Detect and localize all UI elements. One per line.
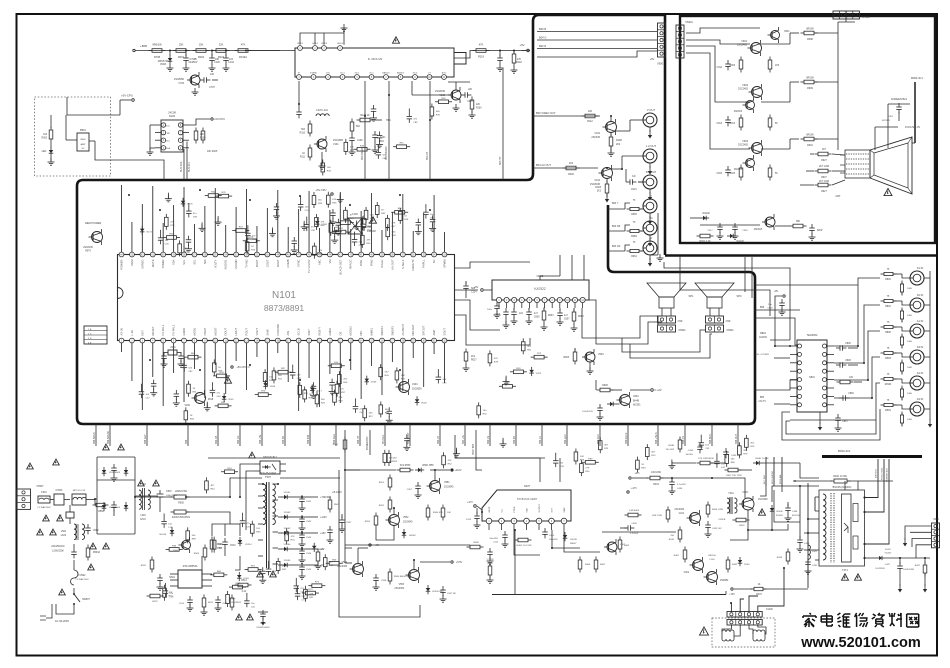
svg-text:BAND2: BAND2 — [397, 72, 405, 75]
svg-text:B05 BAND: B05 BAND — [93, 432, 96, 444]
CRT diode VD905 — [690, 213, 710, 220]
filter inductor LF501 — [72, 490, 95, 505]
remote out wire — [95, 141, 164, 180]
svg-text:T3.15AL250V: T3.15AL250V — [37, 506, 51, 509]
svg-text:VD63: VD63 — [371, 382, 377, 384]
svg-text:SC: SC — [432, 259, 436, 263]
svg-text:C808: C808 — [845, 360, 851, 362]
right harness top — [664, 262, 790, 340]
wire B05 OUT crossing box bottom — [735, 424, 738, 446]
wire audio to right 2 — [755, 318, 800, 345]
diode VD552 — [402, 529, 417, 538]
svg-text:RESET: RESET — [151, 326, 155, 335]
resistor 1bR84 — [386, 224, 397, 240]
capacitor 2C19 — [329, 379, 336, 395]
IC N101 pin 56 (top) — [202, 252, 207, 264]
jack series resistor R802 — [881, 296, 911, 308]
speaker SP3 — [695, 283, 742, 316]
svg-text:BCK-35-1604Z: BCK-35-1604Z — [260, 472, 276, 475]
psu rail wire 1 — [280, 470, 360, 478]
filter cap C565 — [296, 563, 312, 579]
CRT diode VD906 — [727, 234, 744, 243]
svg-text:+15V: +15V — [320, 532, 326, 535]
connector XP909 top — [833, 11, 870, 19]
svg-text:SNDIF1: SNDIF1 — [380, 325, 384, 335]
transistor V202 — [184, 390, 213, 407]
speaker SP3 wires — [622, 330, 712, 358]
CRT resistor R930 — [790, 221, 807, 228]
svg-text:1N4V: 1N4V — [631, 189, 637, 191]
resistor 1cR49 — [321, 159, 332, 175]
svg-text:XS50?: XS50? — [36, 485, 44, 488]
svg-text:MODL2: MODL2 — [349, 326, 353, 336]
svg-text:SIFOUT: SIFOUT — [422, 325, 426, 335]
main board boundary (thick outline) — [77, 15, 755, 424]
output label +5V — [302, 564, 325, 567]
rectifier diode VD562 — [278, 512, 296, 519]
svg-text:2K2: 2K2 — [616, 143, 621, 146]
svg-text:B05 +5V-N: B05 +5V-N — [655, 432, 658, 444]
AV input jack A3 IN — [910, 397, 924, 416]
svg-text:N801: N801 — [809, 376, 815, 379]
ground under V101 — [319, 152, 326, 169]
svg-text:100K: 100K — [907, 315, 913, 317]
hdrive transistor V431 — [674, 509, 700, 526]
HOT transistor V432 — [739, 491, 768, 512]
IC N101 pin 33 (top) — [442, 252, 447, 268]
svg-text:2SC8045: 2SC8045 — [83, 247, 93, 249]
IC N101 pin 17 (bottom) — [286, 331, 291, 343]
warning triangle psu 16 — [247, 614, 254, 620]
warning triangle opto — [249, 452, 256, 458]
svg-text:L200: L200 — [710, 559, 716, 561]
IC N101 pin 28 (bottom) — [400, 324, 405, 343]
resistor 1cR90 — [435, 98, 452, 104]
jack shunt resistor R81WB — [900, 386, 912, 401]
svg-text:AIN: AIN — [286, 331, 290, 336]
resistor R106 pullup — [194, 128, 206, 144]
CRT board box — [680, 16, 935, 243]
svg-text:B05: B05 — [185, 439, 188, 444]
CRT driver transistor V906 — [734, 97, 755, 113]
diode 2VD17 — [310, 384, 323, 393]
svg-text:+27V: +27V — [631, 487, 637, 490]
output label +8V — [302, 548, 325, 551]
svg-text:R404 1% 1/2W: R404 1% 1/2W — [517, 545, 533, 547]
N602 pin 3 — [512, 297, 517, 308]
capacitor 2C40 — [386, 407, 393, 423]
svg-text:+8V: +8V — [650, 57, 655, 61]
svg-text:C502: C502 — [93, 530, 99, 532]
IC N101 pin 26 (bottom) — [380, 325, 385, 342]
capacitor 1bC61 — [360, 216, 372, 232]
svg-text:T431: T431 — [728, 492, 734, 495]
resistor 1bR50 — [163, 233, 180, 239]
svg-text:R552: R552 — [379, 505, 385, 507]
speaker connector CN SP1 — [658, 316, 684, 323]
resistor 2R65 — [379, 364, 390, 380]
svg-text:N501: N501 — [169, 576, 175, 579]
bridge diode VD501 — [102, 467, 117, 476]
capacitor C100 — [209, 51, 221, 72]
svg-text:R560: R560 — [98, 511, 104, 513]
bus SCL wire down — [187, 142, 191, 181]
wire from IC top pin — [350, 229, 352, 252]
svg-text:SDA: SDA — [172, 259, 176, 265]
capacitor 2C79 — [290, 365, 302, 381]
transistor V552 — [386, 512, 414, 528]
svg-text:1 1/2W: 1 1/2W — [487, 559, 495, 561]
cap C558 — [373, 574, 388, 590]
svg-text:FOCUS 0.3V: FOCUS 0.3V — [905, 125, 920, 129]
N602 pin 4 — [519, 297, 524, 308]
svg-text:R110: R110 — [300, 133, 306, 135]
res R552 — [379, 497, 392, 513]
resistor R120 — [357, 114, 392, 122]
svg-text:V703: V703 — [178, 82, 184, 85]
svg-text:2SC8050: 2SC8050 — [174, 78, 185, 81]
N801 right cap C860 — [839, 393, 854, 401]
svg-text:V462: V462 — [684, 572, 690, 574]
CRT cap C919 — [809, 224, 823, 240]
x040 wires — [903, 526, 932, 558]
svg-text:R40E 1.5 3W: R40E 1.5 3W — [755, 458, 769, 460]
N602 pin 5 — [527, 297, 532, 308]
wire from IC top pin — [402, 194, 404, 252]
wire from IC bottom pin — [298, 343, 300, 411]
svg-text:GND2: GND2 — [328, 328, 332, 336]
svg-text:100K: 100K — [907, 419, 913, 421]
snubber diode VD510 — [238, 537, 253, 546]
bridge rectifier frame — [97, 457, 135, 534]
IC N101 pin 58 (top) — [182, 252, 187, 265]
cap C503 — [71, 544, 77, 558]
degauss transistor V462 — [704, 569, 730, 585]
smps wire bundle — [95, 497, 240, 570]
label +5v mid — [420, 561, 463, 564]
svg-text:RB02: RB02 — [760, 333, 766, 335]
svg-text:PGND: PGND — [514, 506, 516, 512]
N401 pin 6 — [549, 508, 555, 531]
svg-text:SAW: SAW — [265, 329, 269, 335]
feedback divider R565 — [194, 545, 207, 561]
svg-text:C563: C563 — [306, 537, 312, 539]
N401 res R402 — [618, 537, 630, 553]
svg-text:STAND: STAND — [310, 72, 318, 75]
svg-text:SEL: SEL — [192, 259, 196, 265]
IC N101 pin 16 (bottom) — [275, 324, 280, 343]
transistor V204 — [396, 379, 423, 395]
resistor R560 — [93, 500, 109, 514]
wire from IC bottom pin — [246, 343, 248, 390]
svg-text:C607: C607 — [564, 319, 570, 321]
svg-text:R064: R064 — [631, 256, 637, 258]
smps sense res R513 — [235, 580, 252, 593]
resistor 6R39 — [510, 368, 527, 374]
svg-text:R11B: R11B — [616, 139, 622, 142]
wire from IC top pin — [141, 204, 143, 252]
IC N101 pin 21 (bottom) — [327, 328, 332, 343]
yoke res R439 — [777, 549, 790, 565]
ground symbol — [353, 220, 360, 229]
transistor V551 — [427, 478, 455, 494]
wire b02 rail — [345, 470, 440, 480]
svg-text:2SC815: 2SC815 — [754, 229, 763, 231]
svg-text:R565: R565 — [194, 553, 200, 555]
svg-text:6R/2W: 6R/2W — [806, 134, 814, 137]
N401 pin 4 — [524, 508, 530, 531]
IC N101 pin 38 (top) — [390, 252, 395, 270]
audio IC N602 KA7522 body — [492, 274, 589, 300]
wire audio to right 3 — [755, 380, 800, 390]
watermark text www.520101.com — [800, 635, 921, 651]
wire from IC top pin — [131, 222, 133, 252]
AV input jack S3 IN — [910, 345, 924, 364]
svg-text:B05 BUS: B05 BUS — [709, 434, 712, 444]
tuner pin bottom 1 — [297, 73, 302, 80]
svg-text:EU01: EU01 — [885, 549, 891, 551]
HOT base res R432 — [733, 518, 750, 527]
audio feed wire 1 — [540, 255, 560, 280]
svg-text:MUTE: MUTE — [151, 259, 155, 267]
svg-text:R111: R111 — [300, 157, 306, 159]
resistor 1R90 — [362, 215, 373, 231]
svg-text:TUNER: TUNER — [161, 259, 165, 268]
svg-text:V102: V102 — [594, 132, 600, 135]
svg-text:B000-4C1: B000-4C1 — [911, 76, 923, 80]
CRT resistor R927 — [810, 149, 845, 162]
degauss dashed box — [712, 618, 775, 647]
svg-text:R A OUT: R A OUT — [646, 170, 657, 174]
svg-text:10K: 10K — [327, 167, 331, 169]
wire from IC top pin — [339, 192, 341, 252]
svg-text:DEFOUT: DEFOUT — [411, 324, 415, 335]
svg-text:Z201: Z201 — [170, 347, 176, 349]
resistor 1R30 — [361, 232, 372, 248]
diode 1VD78 — [181, 198, 194, 207]
capacitor 2C41 — [353, 398, 365, 414]
svg-text:+5V-TV: +5V-TV — [758, 401, 766, 403]
wire B03 HEATER — [771, 457, 774, 486]
N401 res R404 — [515, 538, 533, 547]
IC N101 pin 25 (bottom) — [369, 327, 374, 343]
wire EEPROM to bus — [183, 148, 185, 150]
svg-text:V604: V604 — [633, 395, 639, 398]
hout harness — [672, 478, 819, 540]
svg-text:IFIN2: IFIN2 — [370, 259, 374, 266]
diode 5bVD93 — [237, 572, 250, 581]
ground symbol — [337, 193, 344, 202]
svg-text:+110V: +110V — [454, 469, 461, 472]
svg-text:S-SELF: S-SELF — [401, 259, 405, 269]
wire from IC top pin — [371, 193, 373, 252]
svg-text:A3 IN: A3 IN — [917, 397, 924, 401]
svg-text:47K: 47K — [338, 397, 342, 399]
capacitor 5C90 — [266, 561, 278, 577]
main IC N101 8873/8891 body — [118, 255, 455, 341]
svg-text:2SC815: 2SC815 — [734, 111, 743, 113]
tuner pin bottom 4 — [340, 73, 345, 80]
svg-text:R500: R500 — [178, 502, 184, 505]
fbt screen wire — [865, 459, 890, 544]
svg-text:B05 OUT: B05 OUT — [735, 433, 738, 444]
hdrive res R431 — [669, 527, 682, 543]
wire from IC bottom pin — [141, 343, 143, 410]
capacitor 5C61 — [240, 513, 252, 529]
IC N101 pin 31 (bottom) — [432, 329, 437, 342]
diode 1VD74 — [140, 226, 153, 235]
svg-text:BH-NGF: BH-NGF — [382, 434, 385, 444]
RGB line B02 R — [537, 44, 657, 49]
AV jack Cb — [643, 216, 657, 247]
resistor 1bR15 — [178, 240, 189, 256]
svg-text:VD52: VD52 — [536, 373, 542, 375]
IC N101 pin 63 (top) — [130, 252, 135, 265]
resistor R503A — [86, 545, 100, 561]
ground symbol — [165, 193, 172, 202]
capacitor C105 — [461, 89, 473, 103]
bridge diode VD502 — [102, 502, 117, 511]
svg-text:+8V: +8V — [774, 290, 779, 293]
svg-text:R470: R470 — [756, 594, 762, 596]
transistor V703 buffer — [174, 72, 200, 95]
transistor V102 video buffer — [591, 116, 643, 139]
IC N101 pin 12 (bottom) — [234, 328, 239, 343]
capacitor 2C22 — [139, 384, 151, 400]
svg-text:R604: R604 — [578, 316, 584, 318]
resistor 5R44 — [205, 477, 216, 493]
svg-text:XP909: XP909 — [862, 16, 870, 19]
wire from IC top pin — [423, 213, 425, 252]
svg-text:T50?: T50? — [265, 475, 271, 479]
svg-text:2SD882: 2SD882 — [720, 580, 729, 582]
N401 pin 3 — [511, 506, 517, 530]
degauss diode VD461 — [738, 557, 751, 566]
svg-text:102/2KV: 102/2KV — [882, 120, 891, 122]
svg-text:R462: R462 — [732, 564, 738, 566]
speaker SP1 — [647, 283, 694, 316]
svg-text:KA/: KA/ — [632, 175, 636, 178]
RGB line B00 B — [537, 27, 657, 32]
svg-text:R447: R447 — [915, 565, 921, 567]
wire from IC top pin — [433, 195, 435, 252]
wire B05 AGC crossing box bottom — [597, 424, 600, 446]
wire B05 crossing box bottom — [185, 424, 188, 446]
svg-text:R100: R100 — [476, 108, 482, 110]
jack series resistor R81B — [881, 348, 911, 360]
fbt feed res R437 — [725, 468, 753, 477]
resistor 4cR14 — [383, 450, 394, 466]
audio mute transistor V604 — [617, 392, 642, 408]
svg-text:SP3: SP3 — [736, 294, 742, 298]
svg-text:+5V-CPU O: +5V-CPU O — [236, 366, 249, 369]
IC N101 pin 32 (bottom) — [442, 328, 447, 343]
N401 diode VD402 — [563, 532, 578, 545]
hdrive res R430 — [652, 507, 670, 523]
svg-text:C510: C510 — [230, 545, 236, 547]
svg-text:1 B: 1 B — [88, 329, 92, 331]
ecap C441 — [805, 558, 819, 574]
svg-text:V431: V431 — [679, 513, 685, 515]
resistor 2bR79 — [212, 359, 223, 375]
svg-text:B03 sync: B03 sync — [564, 433, 567, 444]
resistor 5R79 — [302, 589, 319, 595]
snd rail wire — [345, 544, 470, 546]
IC N101 pin 1 (bottom) — [119, 328, 124, 343]
svg-text:SCL: SCL — [182, 259, 186, 265]
capacitor 5cC71 — [295, 586, 307, 602]
wire IC right to audio — [455, 262, 531, 268]
degauss coil 2 — [753, 630, 765, 641]
svg-text:VD49: VD49 — [421, 402, 427, 404]
svg-text:VREF: VREF — [564, 506, 566, 512]
audio res R603 — [541, 308, 555, 331]
svg-text:POWER B03: POWER B03 — [367, 436, 369, 450]
svg-text:C436: C436 — [688, 450, 694, 452]
resistor 1R18 — [398, 208, 409, 224]
svg-text:2K7 1/2W: 2K7 1/2W — [819, 166, 830, 168]
svg-text:R454 1/4W: R454 1/4W — [712, 509, 724, 511]
svg-text:R119: R119 — [478, 55, 485, 59]
svg-text:2K7 1/2W: 2K7 1/2W — [819, 181, 830, 183]
svg-text:2SC815: 2SC815 — [734, 169, 743, 171]
svg-text:+5V-CPU: +5V-CPU — [121, 94, 133, 98]
CRT driver transistor V907 — [734, 155, 755, 171]
wire from IC bottom pin — [173, 343, 175, 373]
warning triangle psu 11 — [88, 564, 95, 570]
svg-text:F100: F100 — [352, 213, 358, 216]
N602 pin 9 — [557, 297, 562, 308]
capacitor 2C36 — [310, 382, 317, 398]
warning triangles under fbt — [842, 574, 862, 580]
focus wire — [875, 125, 920, 150]
audio res R608 — [596, 380, 622, 392]
resistor R100 — [469, 97, 483, 119]
svg-text:R140: R140 — [669, 539, 675, 541]
IC N101 pin 59 (top) — [171, 252, 176, 265]
warning triangle psu 8 — [103, 543, 110, 549]
driver transformer T431 — [719, 492, 737, 521]
svg-text:OSCP: OSCP — [203, 328, 207, 336]
svg-text:2SC2482: 2SC2482 — [738, 144, 749, 147]
resistor 5cR43 — [323, 554, 334, 570]
svg-text:R927: R927 — [821, 160, 827, 162]
degauss feed wires up — [731, 568, 784, 612]
power rail to transformer — [186, 478, 262, 497]
IC N101 pin 24 (bottom) — [359, 330, 364, 343]
CRT bias resistor R911 — [768, 57, 780, 73]
svg-text:BY458: BY458 — [776, 515, 783, 517]
mid power res R558 — [467, 542, 484, 549]
label +8v mid — [358, 544, 380, 563]
svg-text:B05 B0: B05 B0 — [282, 435, 285, 444]
opto wire — [240, 464, 254, 530]
wire standby — [345, 430, 352, 563]
svg-text:VD565: VD565 — [284, 560, 291, 562]
heater connect — [760, 486, 800, 522]
wire B03 sync crossing box bottom — [564, 424, 567, 446]
capacitor 1bC58 — [304, 217, 316, 233]
bridge cap C506 — [111, 501, 117, 516]
audio diode VD601 — [607, 402, 620, 407]
IC N101 pin 43 (top) — [338, 252, 343, 274]
smps misc cap C521 — [157, 574, 164, 590]
wire from IC top pin — [152, 186, 154, 252]
svg-text:CX501: CX501 — [55, 490, 63, 492]
wire from IC bottom pin — [318, 343, 320, 407]
ground symbol — [269, 228, 276, 237]
svg-text:MOUT: MOUT — [213, 327, 217, 335]
